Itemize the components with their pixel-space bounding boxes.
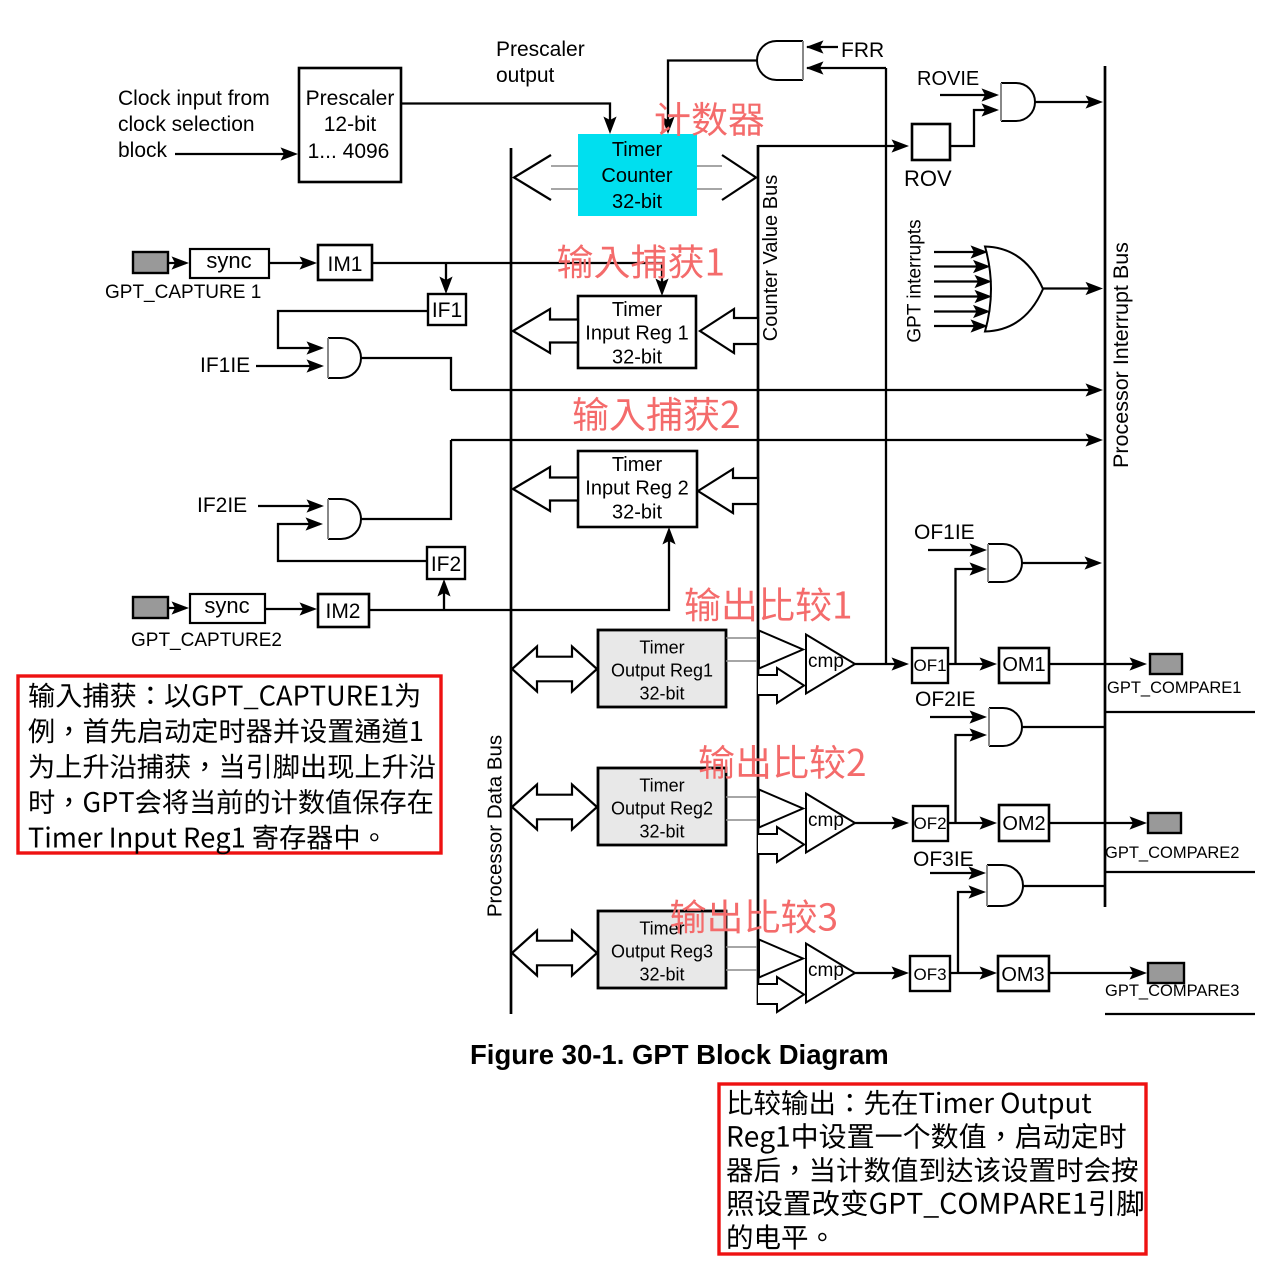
svg-text:IF1: IF1: [432, 299, 462, 322]
svg-text:Figure 30-1. GPT Block Diagram: Figure 30-1. GPT Block Diagram: [470, 1039, 889, 1070]
svg-text:Timer: Timer: [612, 139, 663, 161]
svg-text:cmp: cmp: [808, 651, 844, 672]
svg-text:32-bit: 32-bit: [612, 347, 662, 369]
svg-text:ROV: ROV: [904, 166, 952, 191]
svg-text:Timer: Timer: [612, 299, 663, 321]
svg-text:block: block: [118, 139, 168, 162]
svg-text:sync: sync: [206, 248, 251, 273]
svg-text:IM1: IM1: [327, 253, 362, 276]
svg-text:GPT_CAPTURE 1: GPT_CAPTURE 1: [105, 282, 261, 303]
svg-text:OM2: OM2: [1002, 813, 1045, 835]
svg-text:32-bit: 32-bit: [612, 191, 662, 213]
svg-text:OF3IE: OF3IE: [913, 848, 974, 871]
svg-text:1... 4096: 1... 4096: [308, 140, 390, 163]
svg-text:IF1IE: IF1IE: [200, 354, 250, 377]
svg-text:32-bit: 32-bit: [612, 502, 662, 524]
svg-text:12-bit: 12-bit: [324, 113, 377, 136]
svg-text:sync: sync: [204, 593, 249, 618]
svg-text:GPT_COMPARE1: GPT_COMPARE1: [1107, 679, 1241, 697]
svg-text:cmp: cmp: [808, 810, 844, 831]
svg-text:OM3: OM3: [1001, 964, 1044, 986]
svg-text:Clock input from: Clock input from: [118, 87, 270, 110]
svg-text:OF3: OF3: [913, 965, 946, 984]
svg-text:Timer: Timer: [639, 776, 684, 796]
svg-text:Timer: Timer: [612, 454, 663, 476]
svg-text:Processor Data Bus: Processor Data Bus: [484, 735, 507, 917]
svg-text:Input Reg 2: Input Reg 2: [585, 478, 688, 500]
svg-text:Prescaler: Prescaler: [496, 38, 585, 61]
svg-text:cmp: cmp: [808, 960, 844, 981]
svg-text:Prescaler: Prescaler: [306, 87, 395, 110]
svg-text:OF1IE: OF1IE: [914, 521, 975, 544]
svg-text:Counter Value Bus: Counter Value Bus: [760, 175, 782, 341]
svg-text:IM2: IM2: [325, 600, 360, 623]
svg-text:Timer: Timer: [639, 638, 684, 658]
svg-text:OF1: OF1: [913, 656, 946, 675]
svg-text:GPT_COMPARE2: GPT_COMPARE2: [1105, 844, 1239, 862]
svg-text:GPT interrupts: GPT interrupts: [905, 219, 926, 342]
svg-text:OM1: OM1: [1002, 654, 1045, 676]
svg-text:OF2IE: OF2IE: [915, 688, 976, 711]
svg-text:32-bit: 32-bit: [639, 684, 684, 704]
svg-text:32-bit: 32-bit: [639, 822, 684, 842]
svg-text:Counter: Counter: [601, 165, 672, 187]
svg-text:Output Reg3: Output Reg3: [611, 942, 713, 962]
svg-text:IF2: IF2: [431, 553, 461, 576]
svg-text:output: output: [496, 64, 555, 87]
svg-text:FRR: FRR: [841, 39, 884, 62]
svg-text:OF2: OF2: [913, 814, 946, 833]
svg-text:Output Reg1: Output Reg1: [611, 661, 713, 681]
svg-text:IF2IE: IF2IE: [197, 494, 247, 517]
svg-text:clock selection: clock selection: [118, 113, 255, 136]
svg-text:Processor Interrupt Bus: Processor Interrupt Bus: [1109, 242, 1133, 468]
svg-text:Output Reg2: Output Reg2: [611, 799, 713, 819]
svg-text:32-bit: 32-bit: [639, 965, 684, 985]
svg-text:Input Reg 1: Input Reg 1: [585, 323, 688, 345]
svg-text:GPT_CAPTURE2: GPT_CAPTURE2: [131, 630, 282, 651]
svg-text:ROVIE: ROVIE: [917, 68, 979, 90]
svg-text:GPT_COMPARE3: GPT_COMPARE3: [1105, 982, 1239, 1000]
